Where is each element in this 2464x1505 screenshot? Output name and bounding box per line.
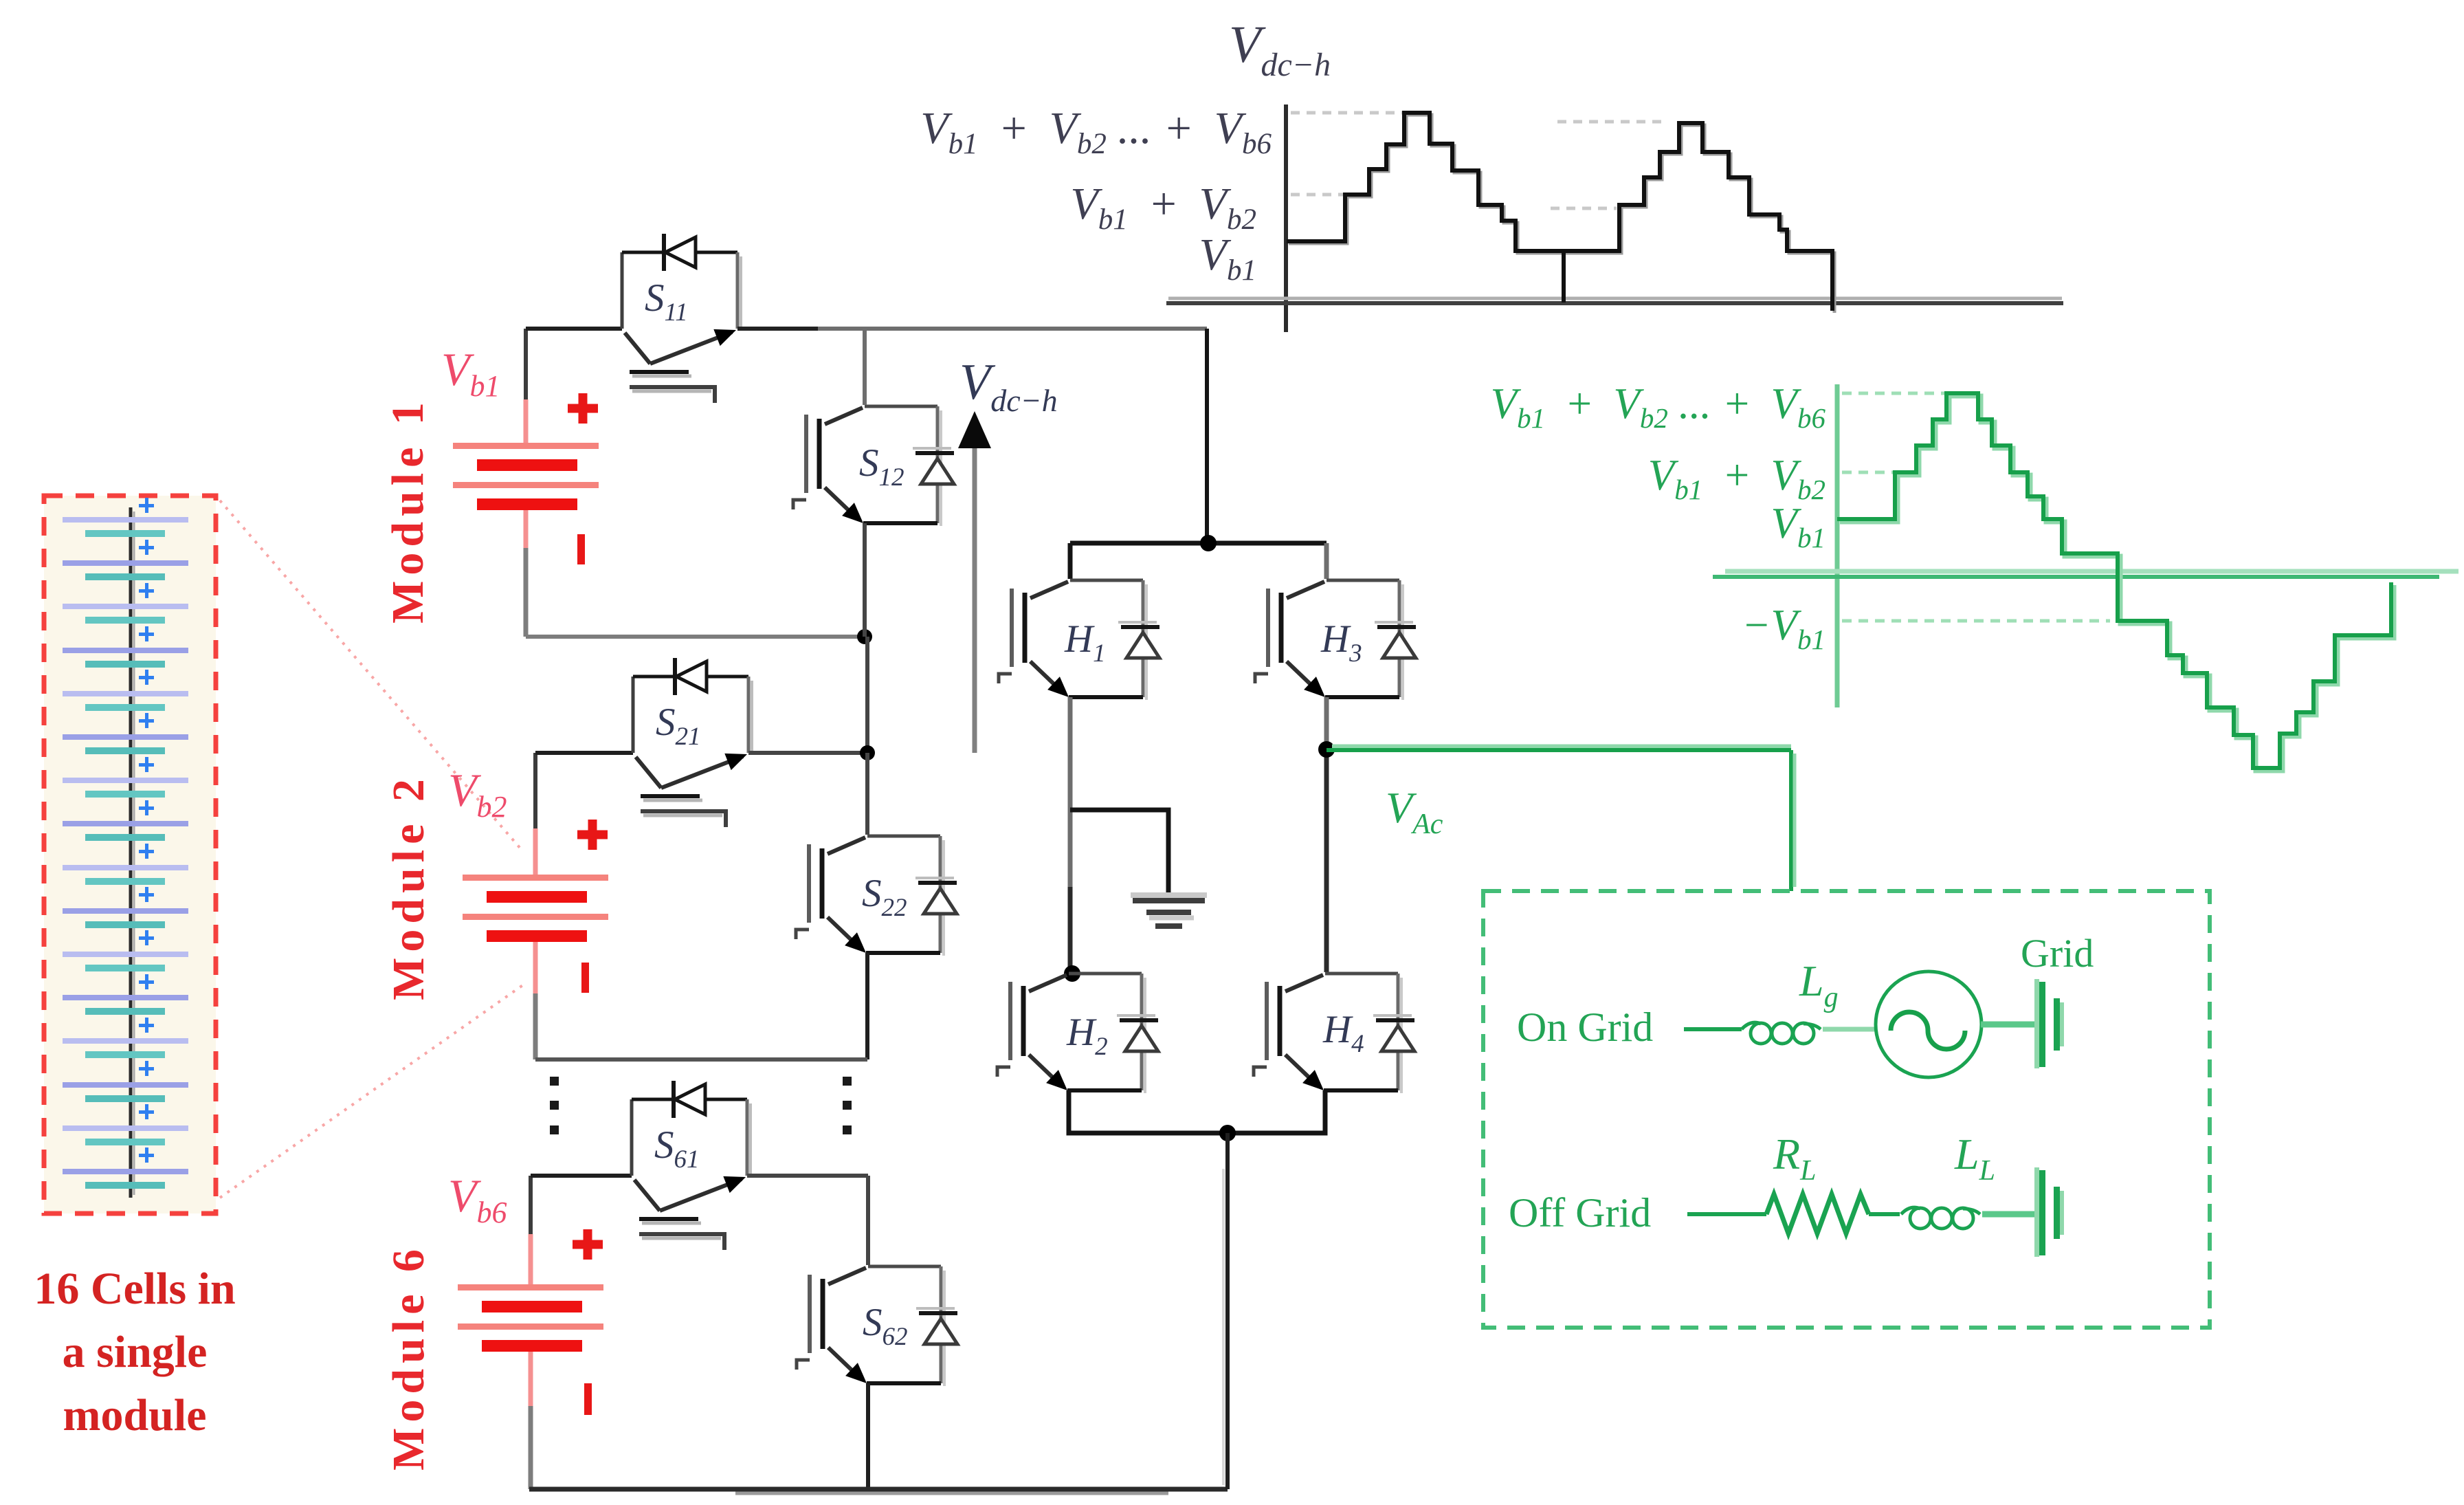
node top rail junction	[1200, 535, 1217, 551]
wire RL to LL	[1869, 1212, 1900, 1216]
wire LL to ground	[1982, 1211, 2036, 1218]
dc waveform axes	[1284, 105, 1288, 332]
node Vac tap junction	[1318, 741, 1335, 758]
dc waveform period divider	[1562, 251, 1566, 303]
dc staircase waveform	[1287, 113, 1832, 311]
wire ground tap	[1070, 810, 1168, 895]
transistor H3 (IGBT with antiparallel diode)	[1255, 580, 1416, 700]
bottom return rail	[529, 1487, 1228, 1492]
caption: 16 Cells in a single module	[34, 1264, 235, 1440]
svg-text:Module 2: Module 2	[384, 773, 434, 1000]
module 6 plus sign	[573, 1229, 603, 1260]
switch S11 (IGBT with series diode)	[622, 234, 741, 403]
wire off-grid input	[1687, 1212, 1766, 1216]
wire Lg to grid source	[1823, 1027, 1877, 1032]
transistor H1 (IGBT with antiparallel diode)	[999, 580, 1159, 700]
module 6 minus sign	[584, 1383, 592, 1415]
ellipsis dots left column	[550, 1077, 559, 1134]
red dotted zoom leader (top)	[220, 501, 521, 849]
wire chain rail S12 junction down to S21 level	[865, 637, 869, 753]
wire module2 bottom rail	[535, 1057, 867, 1062]
node H-bridge bottom junction	[1219, 1125, 1236, 1141]
svg-text:a single: a single	[63, 1327, 208, 1377]
ac staircase waveform (light shadow)	[1840, 396, 2394, 771]
wire S62 emitter to bottom rail	[866, 1383, 870, 1489]
svg-text:On Grid: On Grid	[1517, 1004, 1653, 1050]
ground (on-grid, rotated)	[2034, 979, 2064, 1068]
switch S22 (IGBT with antiparallel diode)	[796, 836, 957, 956]
ground symbol	[1131, 895, 1207, 926]
node module1-/S12 emitter junction	[857, 629, 872, 644]
wire on-grid input	[1684, 1027, 1742, 1031]
wire module2 plus to S21	[535, 751, 633, 755]
wire H3 emitter down to H4	[1324, 697, 1329, 749]
transistor H2 (IGBT with antiparallel diode)	[997, 974, 1158, 1093]
node H1/H2 junction	[1064, 965, 1080, 982]
dashed level leaders (black plot)	[1291, 113, 1666, 208]
svg-text:Module 1: Module 1	[383, 397, 433, 624]
wire module6 plus to S61	[531, 1174, 632, 1178]
dashed level leaders (green plot)	[1842, 393, 2110, 621]
transistor H4 (IGBT with antiparallel diode)	[1254, 974, 1414, 1093]
switch S61 (IGBT with series diode)	[632, 1081, 751, 1250]
wire grid source to ground	[1981, 1022, 2036, 1028]
ground (off-grid, rotated)	[2034, 1167, 2064, 1257]
wire bridge bottom down to return rail	[1225, 1133, 1230, 1489]
module 1 plus sign	[568, 393, 598, 424]
wire H4 emitter to bottom junction	[1228, 1090, 1325, 1133]
H-bridge top rail	[1070, 541, 1327, 546]
wire H1 emitter down to H2	[1068, 697, 1073, 887]
wire rail corner down to H1	[1068, 543, 1073, 579]
cell plus markers	[139, 498, 154, 1163]
grid interface dashed box	[1483, 891, 2210, 1328]
wire top rail corner down to H-bridge	[1205, 329, 1209, 543]
battery module 6 (Vb6 source)	[458, 1176, 603, 1489]
svg-text:16 Cells in: 16 Cells in	[34, 1264, 235, 1314]
wire module1 plus to S11	[526, 327, 622, 331]
node S21 output junction	[860, 745, 875, 760]
switch S62 (IGBT with antiparallel diode)	[797, 1266, 957, 1386]
cell stack centre conductor	[129, 507, 133, 1198]
inductor LL	[1901, 1207, 1980, 1229]
16-cell battery module zoom box	[44, 496, 216, 1213]
AC source Grid	[1876, 971, 1982, 1077]
module 2 minus sign	[581, 963, 589, 993]
wire S21 to chain rail	[748, 751, 867, 755]
wire H2 emitter to bottom junction	[1069, 1090, 1228, 1133]
inductor Lg	[1742, 1022, 1821, 1044]
ac waveform axes (green)	[1835, 384, 1840, 707]
ellipsis dots right column	[843, 1077, 852, 1134]
wire S61 to S62 collector rail	[747, 1174, 868, 1178]
resistor RL	[1766, 1194, 1869, 1233]
wire S12 emitter down to junction	[863, 523, 867, 637]
switch S21 (IGBT with series diode)	[633, 658, 752, 827]
dc staircase waveform (shadow)	[1289, 115, 1834, 313]
16 series cells (plates)	[63, 517, 188, 1189]
svg-text:Module 6: Module 6	[384, 1244, 434, 1471]
battery module 2 (Vb2 source)	[463, 753, 608, 1059]
battery module 1 (Vb1 source)	[453, 329, 599, 637]
red dotted zoom leader (bottom)	[220, 985, 524, 1198]
wire Vac (green) to grid box	[1332, 745, 1791, 749]
svg-text:Grid: Grid	[2021, 931, 2094, 976]
wire S22 emitter to module2 bottom rail	[865, 953, 869, 1059]
module 2 plus sign	[577, 820, 608, 850]
svg-text:Off Grid: Off Grid	[1509, 1190, 1651, 1235]
wire S12 collector to top rail	[863, 329, 867, 405]
wire module1 bottom rail	[526, 635, 865, 639]
wire rail down to S62	[866, 1176, 870, 1265]
wire S11 to H-bridge top corner	[737, 327, 818, 331]
wire rail corner down to H3	[1324, 543, 1329, 579]
svg-text:module: module	[63, 1390, 206, 1440]
module 1 minus sign	[577, 534, 585, 564]
wire chain rail down to S22	[865, 753, 869, 835]
Vdc-h measurement arrow	[958, 411, 991, 753]
switch S12 (IGBT with antiparallel diode)	[793, 406, 954, 526]
ac staircase waveform	[1837, 393, 2391, 768]
